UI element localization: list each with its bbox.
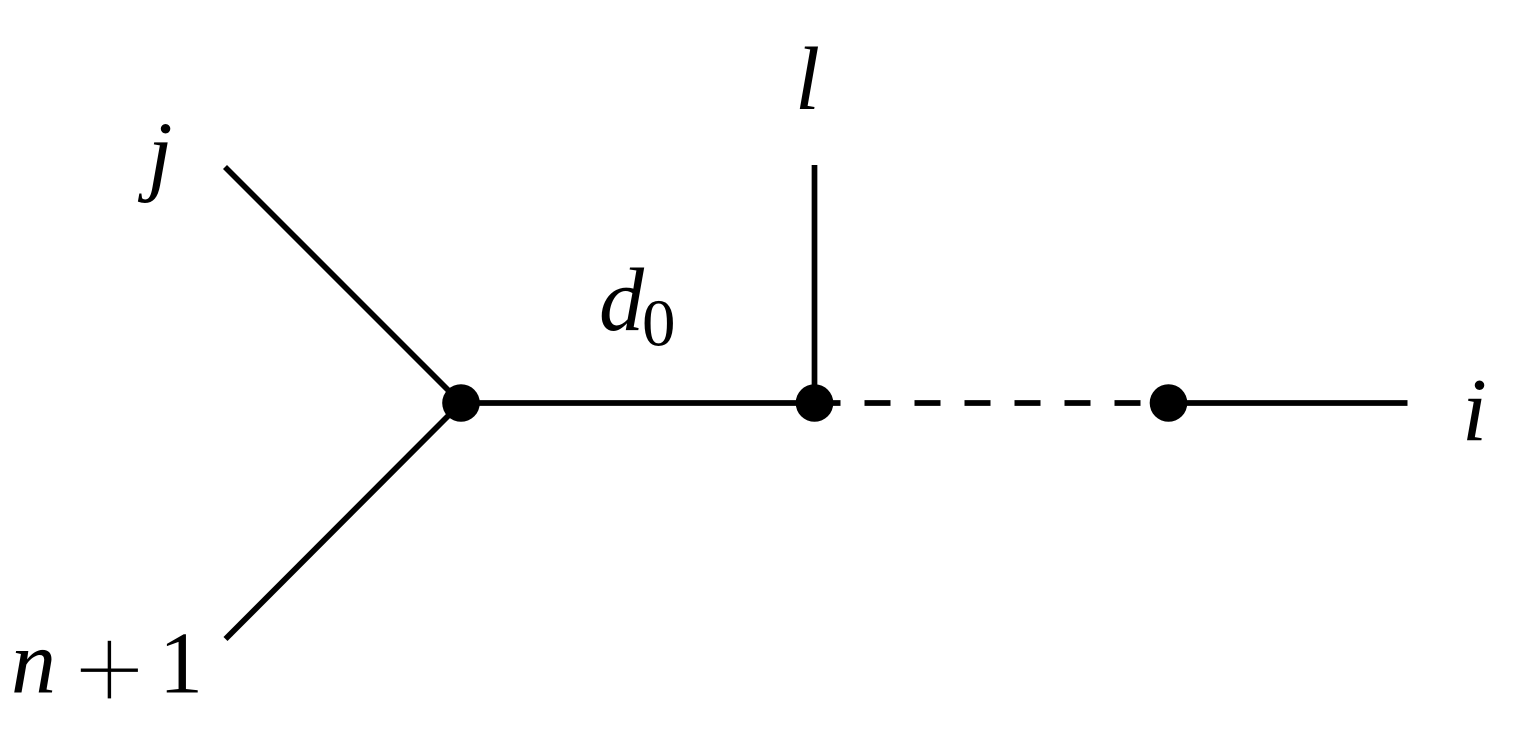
svg-text:j: j xyxy=(138,105,173,204)
node A xyxy=(442,384,480,422)
svg-text:d: d xyxy=(599,251,645,350)
svg-text:1: 1 xyxy=(159,616,203,713)
label + xyxy=(81,641,138,699)
svg-text:l: l xyxy=(795,30,820,129)
node B xyxy=(796,384,834,422)
wire: edge from node C right to leaf i xyxy=(1169,400,1408,406)
svg-text:i: i xyxy=(1462,361,1487,460)
wire: dashed edge from node B to node C xyxy=(815,400,1169,406)
node C xyxy=(1150,384,1188,422)
svg-text:0: 0 xyxy=(642,287,676,361)
wire: edge from node A up-left to leaf j xyxy=(225,167,461,403)
wire: vertical edge from node B up to leaf l xyxy=(812,165,818,403)
wire: edge from node A down-left to leaf n+1 xyxy=(226,403,462,639)
wire: horizontal edge d0 from node A to node B xyxy=(461,400,815,406)
svg-text:n: n xyxy=(11,614,56,713)
